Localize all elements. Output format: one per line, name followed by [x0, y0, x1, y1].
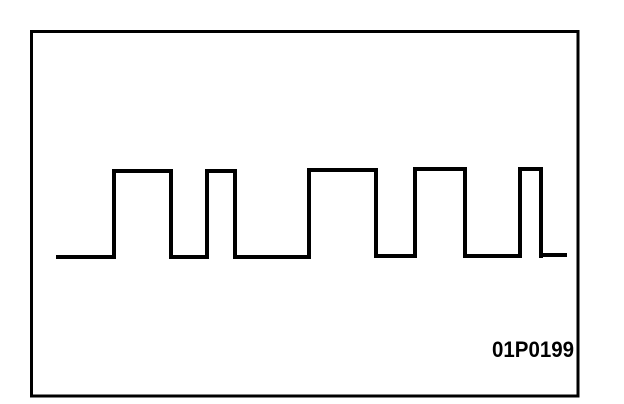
wire rising edge 3 [307, 170, 311, 257]
wire falling edge 2 [233, 171, 237, 257]
wire rising edge 4 [413, 169, 417, 256]
svg-text:01P0199: 01P0199 [492, 337, 574, 362]
wire baseline segment 4 [376, 254, 415, 258]
wire falling edge 1 [169, 171, 173, 257]
wire baseline segment 6 [541, 253, 565, 257]
wire pulse 1 top [114, 169, 171, 173]
frame border [32, 32, 579, 397]
wire pulse 2 top [207, 169, 235, 173]
wire falling edge 4 [463, 169, 467, 256]
wire rising edge 1 [112, 171, 116, 257]
wire pulse 4 top [415, 167, 465, 171]
wire baseline segment 2 [171, 255, 207, 259]
wire baseline segment 5 [465, 254, 520, 258]
wire pulse 5 top [520, 167, 541, 171]
wire falling edge 3 [374, 170, 378, 256]
wire rising edge 2 [205, 171, 209, 257]
wire baseline segment 3 [235, 255, 309, 259]
wire pulse 3 top [309, 168, 376, 172]
wire baseline segment 1 [58, 255, 114, 259]
wire rising edge 5 [518, 169, 522, 256]
wire falling edge 5 [539, 169, 543, 256]
